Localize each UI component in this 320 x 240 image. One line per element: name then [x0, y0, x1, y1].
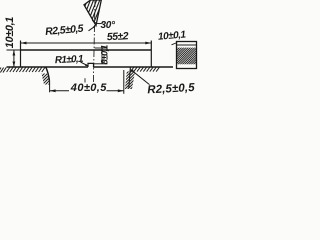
extension line notch root: [94, 63, 108, 65]
left support inner face: [46, 67, 50, 81]
dimension line height 10: [13, 50, 15, 67]
centerline: [93, 0, 95, 82]
specimen bottom / supports top line left part: [7, 66, 89, 68]
left margin support fragment: [0, 68, 1, 73]
section leader tick: [172, 43, 178, 45]
centerline dash fragment: [84, 78, 86, 82]
svg-text:R2,5±0,5: R2,5±0,5: [147, 82, 195, 96]
section square outline: [177, 42, 197, 69]
specimen right edge with extension: [150, 41, 152, 68]
section notch line: [177, 44, 197, 46]
section hatch: [174, 42, 200, 68]
extension line 40 right: [123, 70, 125, 94]
30deg angle arc: [92, 20, 103, 23]
extension line 40 left: [49, 81, 51, 93]
leader support radius: [131, 70, 150, 85]
specimen bottom / supports top line right part: [94, 66, 174, 68]
left support hatch: [7, 67, 10, 72]
svg-text:55±2: 55±2: [107, 30, 130, 43]
right support hatch: [131, 67, 134, 72]
right support inner face: [129, 67, 131, 88]
svg-text:40±0,5: 40±0,5: [70, 82, 107, 94]
left support face hatch: [34, 66, 56, 88]
leader notch radius: [81, 62, 88, 66]
dimension line 8: [101, 48, 103, 64]
specimen top edge: [21, 49, 152, 51]
striker wedge outline: [84, 0, 101, 26]
extension line 8-dim top: [95, 47, 107, 49]
specimen left edge with extension: [20, 41, 22, 68]
notch: [88, 63, 94, 67]
svg-text:10±0,1: 10±0,1: [4, 17, 16, 48]
extension line top-left: [7, 49, 21, 51]
leader striker tip radius: [89, 26, 95, 31]
dimension line 40±0,5: [50, 90, 69, 92]
svg-text:8±0,1: 8±0,1: [100, 45, 110, 65]
svg-text:R1±0,1: R1±0,1: [55, 54, 85, 67]
svg-text:30°: 30°: [101, 20, 117, 31]
dimension line 55±2: [21, 42, 152, 44]
striker hatch: [70, 0, 107, 28]
right support face hatch: [120, 66, 142, 92]
